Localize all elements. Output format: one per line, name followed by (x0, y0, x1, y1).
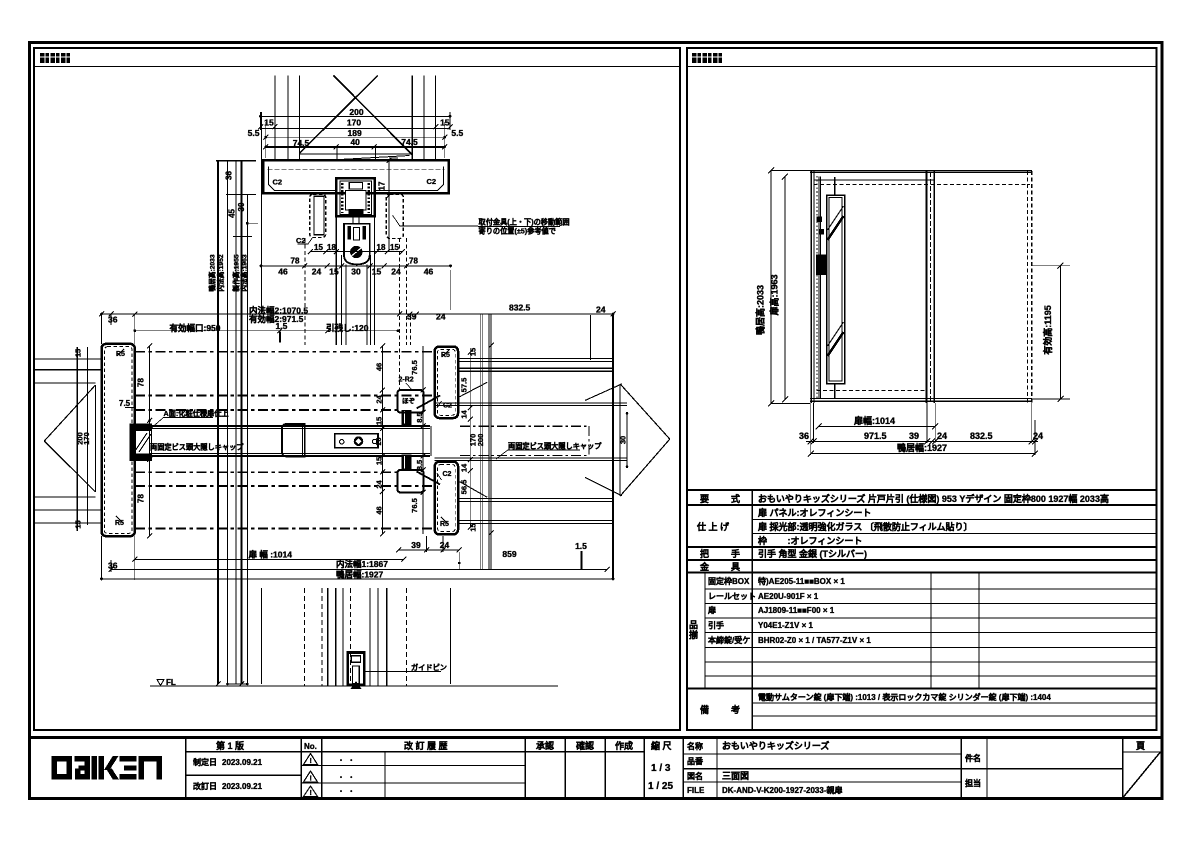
right panel title 正面図 (692, 53, 722, 63)
bolt section circle (350, 246, 362, 258)
svg-text:引手 角型 金銀 (Tシルバー): 引手 角型 金銀 (Tシルバー) (758, 548, 867, 559)
svg-text:2023.09.21: 2023.09.21 (222, 782, 263, 791)
svg-text:17: 17 (378, 181, 387, 190)
svg-text:・ ・: ・ ・ (337, 773, 355, 782)
svg-text:要: 要 (700, 494, 709, 504)
svg-text:内法高:1963: 内法高:1963 (240, 254, 249, 291)
center dim chain line (382, 346, 384, 534)
bottom dim line of top section (261, 265, 451, 267)
lock case (335, 434, 378, 448)
svg-text:30: 30 (237, 202, 246, 211)
bottom guide verticals solid (327, 588, 329, 686)
left pocket dashed (310, 194, 326, 237)
svg-text:859: 859 (502, 549, 516, 559)
right panel title underline (687, 66, 1156, 68)
svg-text:金: 金 (699, 561, 710, 572)
pocket slot lines (435, 402, 627, 404)
lock indicator dots (817, 217, 823, 223)
svg-text:78: 78 (137, 494, 146, 503)
hanger bolt (353, 216, 359, 224)
svg-text:扉幅:1014: 扉幅:1014 (853, 415, 895, 426)
svg-text:78: 78 (137, 378, 146, 387)
top dim line 189 (266, 136, 445, 138)
phantom door dash-dot (460, 426, 589, 455)
svg-text:DK-AND-V-K200-1927-2033-親扉: DK-AND-V-K200-1927-2033-親扉 (722, 785, 842, 795)
door leaf (149, 425, 430, 427)
dim line 15/18 18/15 (311, 251, 403, 253)
hanger cavity (346, 191, 367, 211)
left panel frame (34, 48, 680, 730)
svg-text:5.5: 5.5 (451, 128, 463, 138)
left wall face verticals (76, 347, 78, 531)
svg-text:15: 15 (372, 267, 382, 277)
bottom thin verticals (260, 588, 262, 684)
svg-text:24: 24 (374, 480, 383, 489)
svg-text:C2: C2 (443, 471, 452, 478)
DAIKEN logo letter n (139, 756, 163, 762)
cap ticks (216, 160, 256, 162)
svg-text:!: ! (310, 758, 312, 765)
svg-text:18: 18 (327, 243, 336, 252)
dim texts (108, 303, 606, 334)
page diagonal in 頁 cell (1123, 753, 1160, 798)
dim 17 (388, 160, 390, 251)
bottom center stem (834, 384, 836, 400)
leader diagonal upper (417, 395, 441, 408)
svg-text:15: 15 (440, 118, 450, 128)
svg-text:具: 具 (730, 562, 740, 572)
box inner profile right (376, 167, 444, 191)
戸尻 jamb upper (435, 347, 458, 419)
svg-text:46: 46 (278, 267, 288, 277)
svg-text:枠 :オレフィンシート: 枠 :オレフィンシート (757, 535, 862, 546)
X cross brace (334, 76, 413, 156)
hanger top notch (349, 183, 362, 189)
svg-text:R5: R5 (115, 520, 124, 527)
svg-text:FL: FL (166, 678, 176, 687)
svg-text:170: 170 (347, 118, 361, 128)
svg-text:品番: 品番 (687, 756, 704, 766)
svg-text:15: 15 (374, 457, 383, 465)
svg-text:30: 30 (351, 267, 361, 277)
svg-text:名称: 名称 (687, 741, 703, 751)
meeting stile stubs (401, 410, 411, 425)
svg-text:図名: 図名 (687, 771, 703, 781)
svg-text:おもいやりキッズシリーズ: おもいやりキッズシリーズ (722, 740, 829, 751)
oblique ticks top dims (258, 124, 453, 149)
svg-text:手: 手 (731, 548, 740, 559)
svg-text:57.5: 57.5 (459, 378, 468, 393)
DAIKEN logo letter D (52, 756, 73, 780)
svg-text:8.5: 8.5 (415, 460, 424, 470)
width dim line A (1070.5 chain) (102, 313, 614, 315)
lower bracket (344, 224, 370, 265)
svg-text:BHR02-Z0 × 1 / TA577-Z1V × 1: BHR02-Z0 × 1 / TA577-Z1V × 1 (758, 636, 871, 645)
svg-text:78: 78 (291, 257, 300, 266)
dim 鴨居高:2033 (770, 171, 772, 404)
svg-text:45: 45 (228, 209, 237, 218)
track housing box outer (263, 160, 449, 193)
right wall end vertical (612, 314, 614, 580)
svg-text:承認: 承認 (536, 740, 554, 751)
title block texts (193, 740, 1145, 796)
title block vertical dividers (185, 739, 187, 797)
guide pin leader (365, 670, 441, 672)
svg-text:改 訂 履 歴: 改 訂 履 歴 (404, 740, 448, 751)
svg-text:作成: 作成 (615, 740, 633, 751)
svg-text:寄りの位置(±5)参考値で: 寄りの位置(±5)参考値で (479, 227, 556, 236)
78 dim chain left (149, 346, 151, 536)
2-R2 frame lower (398, 470, 424, 493)
svg-text:No.: No. (304, 742, 317, 751)
svg-text:扉高:1963: 扉高:1963 (769, 274, 780, 316)
svg-text:1 / 25: 1 / 25 (648, 781, 673, 792)
svg-text:揃: 揃 (689, 629, 698, 640)
door bottom lines (810, 398, 1032, 400)
spec table texts (689, 493, 1109, 715)
glass panel (827, 195, 845, 384)
svg-text:74.5: 74.5 (293, 138, 310, 148)
title block top border (28, 736, 1163, 739)
top dim line 170 (261, 127, 451, 129)
svg-text:24: 24 (440, 540, 450, 550)
left break symbol (94, 385, 96, 492)
top center stem (834, 177, 836, 195)
left jamb verticals (810, 171, 812, 404)
svg-text:24: 24 (937, 431, 947, 441)
box inner top line (268, 169, 445, 171)
svg-text:鴨居高:2033: 鴨居高:2033 (208, 254, 217, 291)
left panel title underline (34, 66, 680, 68)
rotated 30 dim right (626, 413, 628, 466)
svg-text:引残し:120: 引残し:120 (326, 323, 369, 333)
svg-text:!: ! (310, 790, 312, 797)
svg-text:扉 採光部:透明強化ガラス 〔飛散防止フィルム貼り〕: 扉 採光部:透明強化ガラス 〔飛散防止フィルム貼り〕 (757, 521, 972, 532)
svg-text:14: 14 (459, 463, 468, 472)
2-R2 frame upper (398, 390, 424, 413)
hanger housing (336, 178, 375, 216)
svg-text:内法高:1952: 内法高:1952 (216, 254, 225, 291)
svg-text:24: 24 (312, 267, 322, 277)
svg-text:把: 把 (700, 548, 709, 559)
dim extension verticals (260, 112, 262, 130)
top dim line 40/74.5 (266, 146, 445, 148)
width dim line B (950 chain) (135, 330, 398, 332)
svg-text:改訂日: 改訂日 (193, 781, 217, 791)
svg-text:18: 18 (377, 243, 386, 252)
leaf end cap (430, 426, 432, 456)
DAIKEN logo letter K (99, 756, 105, 780)
dim 扉高:1963 (784, 177, 786, 400)
rail profile lines (300, 153, 413, 155)
svg-text:ガイドピン: ガイドピン (411, 663, 447, 672)
left wall lines bottom (35, 496, 95, 498)
dim 39/24 bottom (399, 549, 460, 551)
svg-text:制定日: 制定日 (193, 757, 217, 767)
svg-text:有効高:1195: 有効高:1195 (1042, 305, 1053, 355)
svg-text:担当: 担当 (965, 778, 981, 788)
svg-text:取付金具(上・下)の移動範囲: 取付金具(上・下)の移動範囲 (479, 218, 570, 227)
svg-text:備: 備 (700, 704, 709, 715)
svg-text:76.5: 76.5 (410, 498, 419, 513)
svg-text:971.5: 971.5 (864, 431, 887, 441)
left jamb frame (102, 344, 135, 536)
right wall vertical pairs (480, 314, 482, 569)
box inner profile left (269, 167, 337, 191)
bottom tick marks (216, 682, 249, 687)
dashed cavity lines across band (135, 352, 435, 529)
svg-text:件名: 件名 (965, 753, 981, 763)
svg-text:ほぞ: ほぞ (402, 397, 416, 405)
svg-text:1.5: 1.5 (575, 541, 587, 551)
svg-text:R5: R5 (116, 351, 125, 358)
svg-text:FILE: FILE (687, 786, 705, 795)
svg-text:製作高:1955: 製作高:1955 (232, 254, 241, 292)
svg-text:本締錠/受ケ: 本締錠/受ケ (707, 635, 750, 645)
extension line 24 right (590, 315, 592, 360)
svg-text:第 1 版: 第 1 版 (216, 740, 244, 751)
door socket at jamb (130, 424, 153, 431)
svg-text:鴨居幅:1927: 鴨居幅:1927 (897, 442, 947, 453)
door leaf outline (818, 177, 820, 400)
svg-text:15: 15 (74, 349, 83, 357)
spec table horizontal lines (687, 489, 1156, 491)
svg-text:39: 39 (411, 540, 421, 550)
wall insulation diagonals (585, 384, 622, 401)
svg-text:24: 24 (374, 395, 383, 404)
right 200 dim line (490, 345, 492, 533)
svg-text:Y04E1-Z1V × 1: Y04E1-Z1V × 1 (758, 621, 813, 630)
svg-text:縮 尺: 縮 尺 (651, 740, 672, 751)
svg-text:78: 78 (409, 257, 418, 266)
left panel title 断面図 (40, 53, 70, 63)
svg-text:36: 36 (799, 431, 809, 441)
dim line x=423 (422, 346, 424, 534)
svg-text:品: 品 (689, 620, 698, 630)
戸尻 jamb lower (435, 462, 458, 535)
svg-text:24: 24 (436, 312, 446, 322)
svg-text:15: 15 (329, 267, 339, 277)
warning triangle 1 (304, 754, 318, 797)
svg-text:15: 15 (264, 118, 274, 128)
svg-text:三面図: 三面図 (722, 771, 749, 781)
svg-text:14: 14 (459, 410, 468, 419)
svg-text:R5: R5 (440, 521, 449, 528)
annotation text 取付金具 (479, 218, 570, 236)
top dim texts (248, 107, 464, 148)
svg-text:46: 46 (374, 506, 383, 514)
dim chain 36/971.5/39/24/832.5/24 (806, 441, 1038, 443)
DAIKEN logo (52, 756, 163, 780)
door meeting stile verticals (926, 171, 928, 404)
pull handle (282, 424, 305, 457)
svg-text:固定枠BOX: 固定枠BOX (708, 576, 750, 586)
svg-text:832.5: 832.5 (970, 431, 993, 441)
pocket dashed right edge (1027, 171, 1029, 403)
right wall horizontals (458, 359, 613, 524)
top dim line 200 (261, 115, 451, 117)
svg-text:74.5: 74.5 (401, 137, 418, 147)
svg-text:46: 46 (424, 267, 434, 277)
svg-text:鴨居幅:1927: 鴨居幅:1927 (336, 570, 384, 580)
DAIKEN logo letter a (75, 756, 91, 762)
svg-text:39: 39 (407, 312, 417, 322)
title block row lines left section (186, 751, 645, 753)
svg-text:15: 15 (314, 243, 323, 252)
right inner dim line 57.5/14 (469, 352, 471, 527)
guide pin assembly (348, 653, 365, 686)
svg-text:1 / 3: 1 / 3 (651, 763, 671, 774)
C2 label left pocket (298, 237, 314, 244)
svg-text:76.5: 76.5 (410, 360, 419, 375)
spec table vertical lines (751, 490, 753, 731)
roller teeth left/right (341, 183, 344, 213)
verticals continuing below top section (304, 238, 306, 345)
bottom guide verticals dashed (303, 588, 305, 686)
svg-text:170: 170 (82, 432, 91, 445)
svg-text:・ ・: ・ ・ (337, 787, 355, 796)
svg-text:5.5: 5.5 (248, 128, 260, 138)
jamb extension verticals (101, 314, 103, 344)
svg-text:40: 40 (350, 137, 360, 147)
DAIKEN logo letter E (120, 756, 137, 762)
svg-text:扉 パネル:オレフィンシート: 扉 パネル:オレフィンシート (757, 507, 871, 518)
dim 扉幅:1014 (819, 426, 936, 428)
svg-text:46: 46 (374, 363, 383, 371)
FL line (150, 685, 558, 687)
wall diagonal marks near frame (460, 382, 488, 396)
recessed pull handle (817, 255, 827, 274)
svg-text:832.5: 832.5 (509, 303, 531, 313)
svg-text:引手: 引手 (708, 620, 724, 630)
right pocket dashed (386, 194, 403, 238)
svg-text:おもいやりキッズシリーズ 片戸片引 (仕様図) 953 Yデ: おもいやりキッズシリーズ 片戸片引 (仕様図) 953 Yデザイン 固定枠800… (758, 493, 1109, 504)
dim 鴨居幅:1927 (811, 453, 1035, 455)
svg-text:扉: 扉 (707, 605, 716, 615)
svg-text:24: 24 (596, 305, 606, 315)
glass hatch marks (828, 216, 844, 240)
svg-text:R5: R5 (441, 352, 450, 359)
svg-text:8.5: 8.5 (415, 412, 424, 422)
svg-text:26: 26 (376, 438, 383, 446)
svg-text:内法幅1:1867: 内法幅1:1867 (336, 559, 388, 569)
svg-text:200: 200 (349, 107, 363, 117)
svg-text:36: 36 (225, 171, 234, 180)
svg-text:24: 24 (1033, 431, 1043, 441)
svg-text:15: 15 (390, 243, 399, 252)
svg-text:39: 39 (909, 431, 919, 441)
svg-text:有効幅口:950: 有効幅口:950 (170, 323, 221, 333)
svg-text:確認: 確認 (576, 740, 594, 751)
dim 有効高:1195 (1060, 266, 1062, 399)
svg-text:AJ1809-11■■F00 × 1: AJ1809-11■■F00 × 1 (758, 606, 835, 615)
svg-text:両固定ビス頭大隠しキャップ: 両固定ビス頭大隠しキャップ (150, 442, 244, 451)
svg-text:C2: C2 (427, 177, 437, 186)
door top rail solid (810, 170, 1032, 172)
svg-text:仕 上 げ: 仕 上 げ (696, 521, 730, 532)
svg-text:考: 考 (731, 704, 740, 715)
left height dim verticals (217, 161, 219, 685)
left wall lines top (35, 358, 102, 360)
svg-text:1.5: 1.5 (276, 321, 288, 331)
svg-text:2023.09.21: 2023.09.21 (222, 758, 263, 767)
wall studs left (274, 75, 276, 160)
svg-text:7.5: 7.5 (119, 399, 131, 408)
door top rail dashed over pocket (814, 184, 1031, 186)
title block row lines right section (683, 753, 961, 755)
svg-text:AE20U-901F × 1: AE20U-901F × 1 (758, 592, 819, 601)
svg-text:鴨居高:2033: 鴨居高:2033 (755, 285, 766, 335)
svg-text:扉 幅 :1014: 扉 幅 :1014 (248, 550, 293, 560)
svg-text:15: 15 (74, 520, 83, 528)
svg-text:特)AE205-11■■BOX × 1: 特)AE205-11■■BOX × 1 (758, 576, 845, 586)
svg-text:36: 36 (108, 315, 118, 325)
svg-text:レールセット: レールセット (708, 592, 756, 601)
wall studs right (411, 75, 413, 160)
right break symbol (620, 384, 670, 439)
svg-text:!: ! (310, 776, 312, 783)
svg-text:15: 15 (374, 417, 383, 425)
svg-text:電動サムターン錠 (扉下端) :1013 / 表示ロックカマ: 電動サムターン錠 (扉下端) :1013 / 表示ロックカマ錠 シリンダー錠 (… (758, 692, 1051, 702)
rotated dim texts 36/45/30 (225, 171, 246, 218)
svg-text:両固定ビス頭大隠しキャップ: 両固定ビス頭大隠しキャップ (508, 441, 602, 450)
svg-text:・ ・: ・ ・ (337, 756, 355, 765)
left extension verticals to dims (101, 536, 103, 580)
svg-text:C2: C2 (296, 236, 306, 245)
right panel frame (687, 48, 1157, 730)
DAIKEN logo letter I (92, 756, 97, 780)
svg-text:2-R2: 2-R2 (399, 377, 414, 384)
hanger bottom block (349, 209, 364, 214)
svg-text:36: 36 (108, 561, 118, 571)
svg-text:30: 30 (619, 436, 628, 444)
svg-text:C2: C2 (273, 178, 283, 187)
rotated height labels cluster (208, 254, 249, 292)
annotation leader (393, 215, 479, 226)
svg-text:式: 式 (731, 493, 740, 504)
svg-text:頁: 頁 (1136, 741, 1145, 751)
